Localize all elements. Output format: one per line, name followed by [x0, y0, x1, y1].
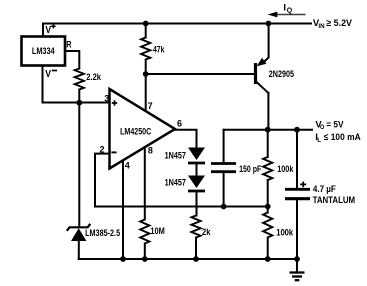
svg-text:4.7 µF: 4.7 µF [313, 184, 336, 195]
svg-text:2: 2 [100, 144, 105, 154]
svg-text:100k: 100k [276, 227, 294, 238]
svg-text:TANTALUM: TANTALUM [313, 195, 356, 206]
svg-text:1N457: 1N457 [165, 177, 186, 188]
svg-text:LM334: LM334 [32, 46, 55, 57]
svg-text:7: 7 [148, 101, 153, 111]
svg-text:2.2k: 2.2k [86, 72, 101, 83]
svg-text:Q: Q [287, 8, 293, 15]
svg-text:= 5V: = 5V [326, 119, 344, 130]
svg-text:1N457: 1N457 [165, 151, 186, 162]
svg-text:≥ 5.2V: ≥ 5.2V [326, 18, 352, 29]
svg-text:10M: 10M [150, 226, 164, 237]
svg-text:3: 3 [104, 93, 109, 103]
svg-text:V: V [45, 69, 51, 80]
svg-text:IN: IN [318, 23, 324, 30]
svg-text:I: I [283, 2, 286, 13]
svg-text:R: R [66, 39, 71, 50]
svg-text:L: L [317, 137, 321, 144]
svg-text:150 pF: 150 pF [239, 164, 261, 175]
svg-text:2N2905: 2N2905 [269, 69, 295, 80]
svg-text:4: 4 [125, 161, 130, 171]
svg-text:2k: 2k [202, 227, 211, 238]
svg-text:≤ 100 mA: ≤ 100 mA [324, 132, 361, 143]
svg-text:LM4250C: LM4250C [120, 127, 151, 138]
svg-text:O: O [320, 124, 324, 131]
svg-text:V: V [45, 25, 51, 36]
svg-text:100k: 100k [277, 164, 294, 175]
svg-text:8: 8 [148, 146, 153, 156]
svg-text:47k: 47k [153, 44, 165, 55]
svg-text:6: 6 [177, 118, 182, 128]
svg-text:LM385-2.5: LM385-2.5 [85, 228, 121, 239]
